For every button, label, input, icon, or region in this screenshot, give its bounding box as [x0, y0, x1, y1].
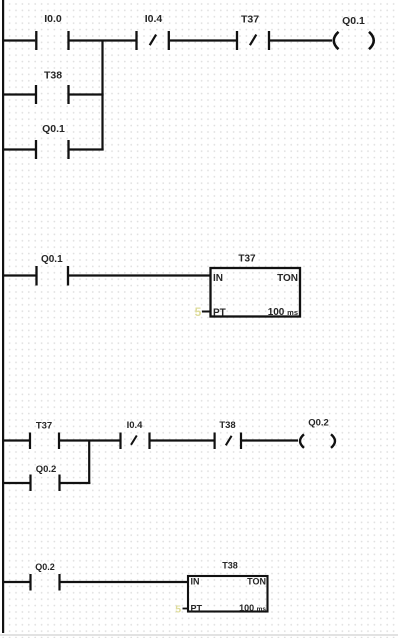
svg-text:Q0.1: Q0.1	[41, 254, 63, 265]
timer T38 (TON box)	[188, 561, 268, 614]
svg-text:Q0.2: Q0.2	[35, 562, 55, 572]
svg-text:5: 5	[195, 305, 202, 319]
contact I0.4 (NC network3)	[121, 420, 150, 449]
contact I0.0	[36, 13, 68, 50]
svg-text:T37: T37	[36, 421, 52, 432]
svg-text:T38: T38	[222, 561, 238, 571]
wire rung1: rail to contact I0.0	[4, 39, 35, 41]
wire network3: rail to contact T37	[4, 439, 29, 441]
svg-text:5: 5	[175, 604, 181, 616]
svg-text:I0.0: I0.0	[44, 13, 62, 25]
svg-text:T37: T37	[241, 14, 259, 26]
wire branch Q0.2: rail to contact	[4, 482, 30, 484]
contact Q0.2 (network4)	[31, 562, 60, 591]
wire network4: rail to contact Q0.2	[4, 581, 30, 583]
contact T37 (NC)	[237, 14, 269, 51]
wire branch Q0.2 to junction	[61, 482, 91, 484]
svg-text:100 ms: 100 ms	[268, 307, 298, 318]
contact Q0.1 (branch)	[36, 123, 69, 159]
svg-text:TON: TON	[277, 273, 298, 284]
svg-text:I0.4: I0.4	[127, 420, 144, 431]
svg-text:PT: PT	[213, 308, 226, 319]
wire network3: I0.4 to T38	[151, 439, 214, 441]
svg-text:T38: T38	[44, 70, 62, 82]
wire network3: T37 to I0.4	[60, 439, 120, 441]
svg-text:Q0.2: Q0.2	[36, 464, 57, 475]
contact Q0.2 (branch network3)	[31, 464, 60, 491]
wire branch Q0.1: rail to contact	[4, 148, 35, 150]
wire branch T38: rail to contact	[4, 93, 35, 95]
wire network4: contact to timer box	[61, 581, 188, 583]
contact I0.4 (NC)	[137, 13, 169, 50]
bottom window edge line	[0, 634, 398, 636]
timer T37 (TON box)	[211, 254, 301, 319]
contact T38 (branch)	[36, 70, 69, 105]
contact T37 (network3)	[30, 421, 59, 450]
junction vertical N1	[101, 40, 103, 151]
svg-text:I0.4: I0.4	[145, 13, 163, 25]
svg-text:Q0.1: Q0.1	[42, 123, 65, 135]
PT pin stub T38	[183, 608, 189, 610]
contact T38 (NC network3)	[215, 420, 241, 449]
contact Q0.1 (network2)	[37, 254, 69, 286]
wire network2: rail to contact Q0.1	[4, 274, 36, 276]
coil Q0.1	[334, 15, 374, 49]
svg-text:T38: T38	[219, 420, 235, 431]
wire rung1: I0.0 to I0.4	[70, 39, 136, 41]
svg-text:IN: IN	[191, 576, 200, 586]
left power rail	[2, 0, 4, 633]
wire branch Q0.1 to junction	[70, 148, 104, 150]
svg-text:IN: IN	[213, 273, 223, 284]
svg-text:PT: PT	[191, 604, 203, 614]
wire network3: T38 to coil	[242, 439, 298, 441]
coil Q0.2	[300, 418, 335, 448]
svg-text:Q0.2: Q0.2	[308, 418, 329, 429]
PT pin stub T37	[202, 311, 210, 313]
wire rung1: I0.4 to T37	[170, 39, 236, 41]
svg-text:TON: TON	[247, 576, 266, 586]
svg-text:Q0.1: Q0.1	[342, 15, 365, 27]
wire rung1: T37 to coil	[270, 39, 332, 41]
wire branch T38 to junction	[70, 93, 104, 95]
junction vertical N3	[88, 440, 90, 485]
svg-text:T37: T37	[238, 254, 256, 265]
wire network2: contact to timer box	[69, 274, 210, 276]
